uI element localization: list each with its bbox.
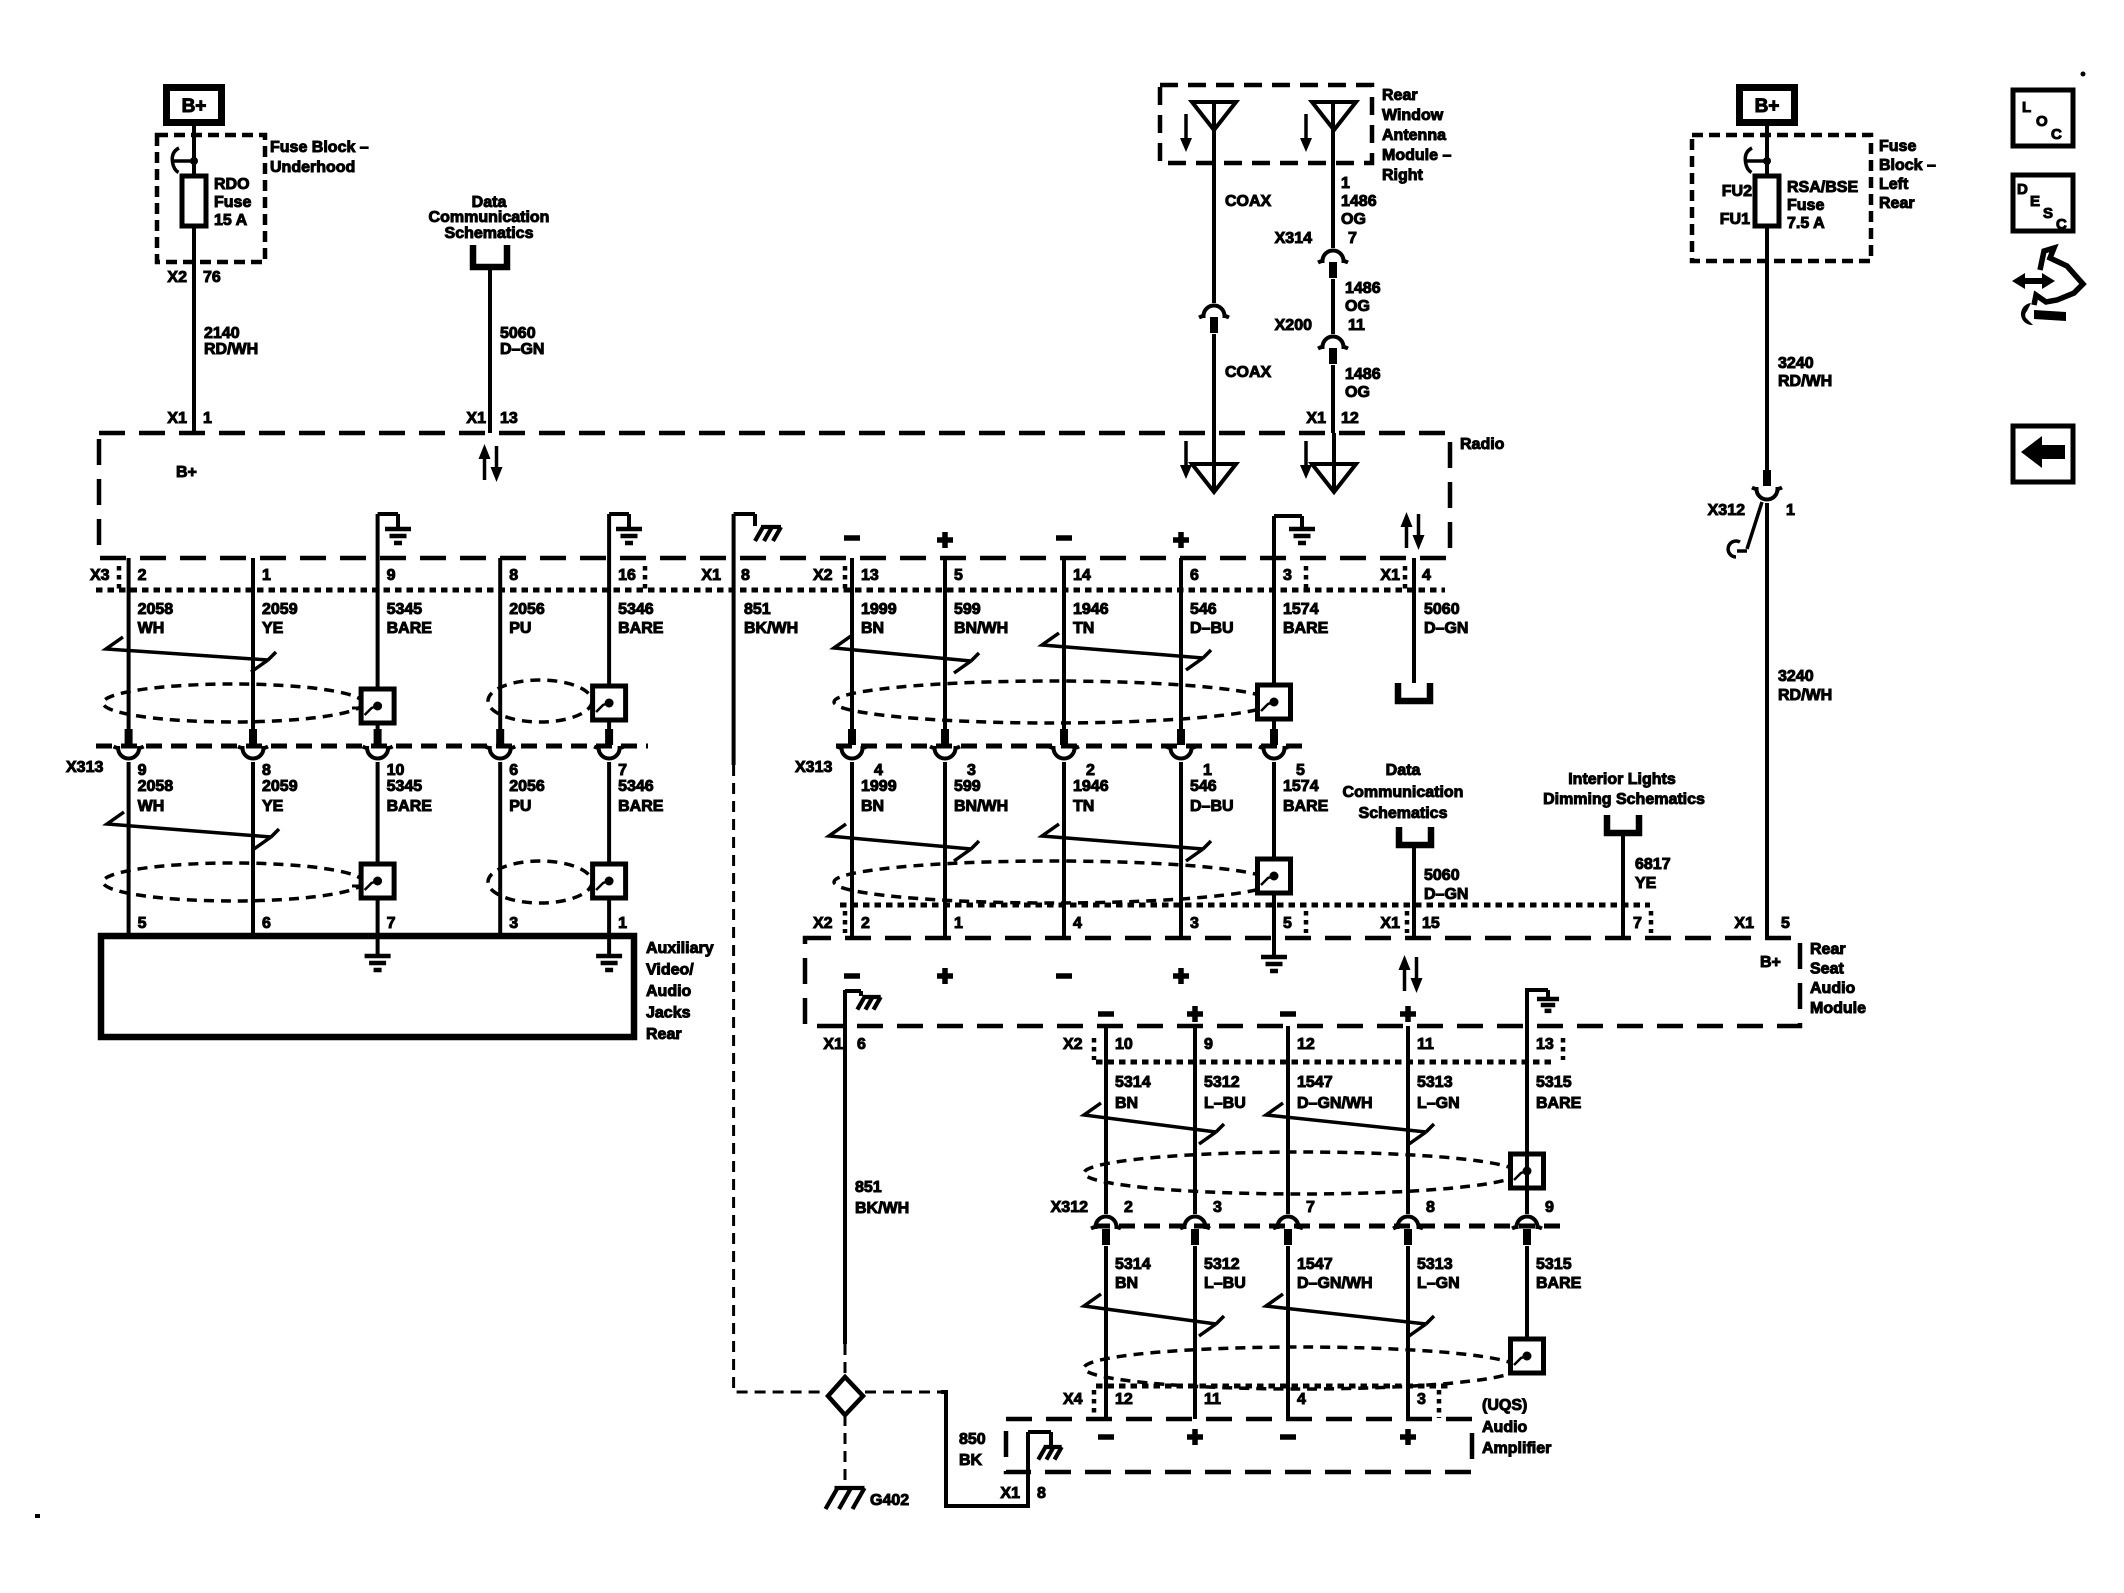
rear seat audio module dashed box bbox=[805, 938, 1800, 1026]
svg-text:Antenna: Antenna bbox=[1382, 127, 1446, 144]
wire 1547 D–GN/WH X312 to amplifier X4-4 bbox=[1286, 1246, 1290, 1419]
svg-text:5: 5 bbox=[1296, 762, 1305, 779]
svg-text:RSA/BSE: RSA/BSE bbox=[1787, 179, 1858, 196]
wire 5314 BN X312 to amplifier X4-12 bbox=[1104, 1246, 1108, 1419]
svg-text:1999: 1999 bbox=[861, 778, 897, 795]
fuse feed terminal curl and junction bbox=[172, 159, 194, 163]
wire 599 BN/WH X313 to rear seat audio module pin 1 bbox=[943, 762, 947, 938]
wire 1574 BARE radio X2-3 to X313 bbox=[1272, 558, 1276, 730]
connector X2 end tick bbox=[843, 566, 848, 590]
rear seat audio module connector face dotted line bbox=[840, 903, 1650, 908]
svg-text:Communication: Communication bbox=[1343, 784, 1464, 801]
shield ellipse bottom (lower) bbox=[1084, 1347, 1518, 1389]
twisted leads arrow mid pair B (upper) bbox=[1042, 633, 1211, 670]
svg-text:TN: TN bbox=[1073, 620, 1094, 637]
svg-text:2: 2 bbox=[1086, 762, 1095, 779]
svg-text:X2: X2 bbox=[167, 269, 187, 286]
svg-text:RD/WH: RD/WH bbox=[204, 341, 258, 358]
wire 2056 PU X313 to auxiliary jacks pin 3 bbox=[498, 762, 502, 936]
svg-text:15: 15 bbox=[1422, 915, 1440, 932]
svg-text:599: 599 bbox=[954, 778, 981, 795]
svg-text:L–BU: L–BU bbox=[1204, 1095, 1246, 1112]
svg-text:X2: X2 bbox=[1063, 1036, 1083, 1053]
svg-text:7: 7 bbox=[1633, 915, 1642, 932]
power symbol B+ battery feed (underhood) bbox=[167, 88, 222, 123]
svg-text:YE: YE bbox=[262, 620, 284, 637]
wire 546 D–BU radio X2-6 to X313 bbox=[1179, 558, 1183, 730]
svg-text:4: 4 bbox=[874, 762, 883, 779]
svg-text:3: 3 bbox=[1417, 1391, 1426, 1408]
off-page bracket to data communication schematics bbox=[473, 245, 507, 267]
wire 1486 OG antenna 2 middle segment bbox=[1331, 279, 1335, 334]
svg-text:1547: 1547 bbox=[1297, 1074, 1333, 1091]
svg-text:1486: 1486 bbox=[1341, 193, 1377, 210]
svg-text:Audio: Audio bbox=[646, 983, 692, 1000]
connector X3 right end tick bbox=[643, 566, 648, 590]
svg-text:12: 12 bbox=[1341, 410, 1359, 427]
twisted leads arrow mid pair B (lower) bbox=[1042, 824, 1211, 861]
shield ellipse left pair (upper) bbox=[103, 684, 363, 722]
svg-text:COAX: COAX bbox=[1225, 364, 1272, 381]
svg-text:10: 10 bbox=[387, 762, 405, 779]
antenna element 1 (left) bbox=[1192, 102, 1236, 130]
svg-text:1: 1 bbox=[954, 915, 963, 932]
svg-text:851: 851 bbox=[744, 601, 771, 618]
svg-text:5: 5 bbox=[1283, 915, 1292, 932]
svg-text:7: 7 bbox=[1306, 1199, 1315, 1216]
svg-text:L–GN: L–GN bbox=[1417, 1275, 1460, 1292]
wire 5315 BARE module X2-13 to X312 bbox=[1525, 1026, 1529, 1214]
icon box LOC bbox=[2013, 90, 2073, 146]
svg-text:5314: 5314 bbox=[1115, 1256, 1151, 1273]
svg-text:1: 1 bbox=[1341, 175, 1350, 192]
svg-text:5315: 5315 bbox=[1536, 1256, 1572, 1273]
svg-text:Fuse Block –: Fuse Block – bbox=[270, 139, 369, 156]
connector X312 pin 2 terminals bbox=[1091, 1217, 1121, 1229]
svg-text:1574: 1574 bbox=[1283, 778, 1319, 795]
svg-text:G402: G402 bbox=[870, 1492, 909, 1509]
svg-text:13: 13 bbox=[500, 410, 518, 427]
svg-text:5: 5 bbox=[1781, 915, 1790, 932]
svg-text:Amplifier: Amplifier bbox=[1482, 1440, 1551, 1457]
svg-text:Jacks: Jacks bbox=[646, 1005, 691, 1022]
auxiliary jacks internal ground pin 7 bbox=[365, 956, 391, 970]
wire 1547 D–GN/WH module X2-12 to X312 bbox=[1286, 1026, 1290, 1214]
fuse RDO 15 A bbox=[182, 176, 206, 226]
connector X312 face (bottom) bbox=[1094, 1224, 1562, 1229]
icon box back arrow bbox=[2013, 426, 2073, 482]
svg-text:D–GN: D–GN bbox=[1424, 886, 1468, 903]
svg-text:8: 8 bbox=[262, 762, 271, 779]
svg-text:2: 2 bbox=[1124, 1199, 1133, 1216]
svg-text:9: 9 bbox=[1545, 1199, 1554, 1216]
radio internal chassis ground at X1-8 bbox=[732, 514, 736, 558]
svg-text:D–GN/WH: D–GN/WH bbox=[1297, 1095, 1373, 1112]
svg-text:5060: 5060 bbox=[1424, 867, 1460, 884]
radio connector face dotted line X3/X1/X2 bbox=[96, 588, 1445, 593]
svg-text:OG: OG bbox=[1341, 211, 1366, 228]
svg-text:1574: 1574 bbox=[1283, 601, 1319, 618]
shield ellipse left pair (lower) bbox=[103, 863, 363, 901]
svg-text:Underhood: Underhood bbox=[270, 159, 355, 176]
svg-text:Radio: Radio bbox=[1460, 436, 1505, 453]
svg-text:WH: WH bbox=[138, 798, 165, 815]
connector X2 right end tick (module) bbox=[1304, 911, 1309, 933]
radio polarity signs above X2 pins bbox=[844, 535, 860, 541]
bidirectional data arrows inside radio at X1-4 bbox=[1405, 526, 1409, 548]
wire 546 D–BU X313 to rear seat audio module pin 3 bbox=[1179, 762, 1183, 938]
svg-text:X313: X313 bbox=[66, 759, 103, 776]
ground G402 chassis symbol bbox=[826, 1488, 865, 1509]
svg-text:13: 13 bbox=[1536, 1036, 1554, 1053]
svg-text:X2: X2 bbox=[813, 567, 833, 584]
inline connector X312 pin 1 bbox=[1763, 470, 1771, 486]
svg-text:BARE: BARE bbox=[618, 620, 664, 637]
fuse block left rear dashed box bbox=[1692, 135, 1871, 261]
amplifier internal chassis ground at X1-8 bbox=[1028, 1432, 1051, 1447]
shield termination square 5345 (lower) bbox=[361, 864, 394, 898]
svg-text:3: 3 bbox=[1190, 915, 1199, 932]
wire 5345 BARE radio X3-9 to X313 bbox=[376, 558, 380, 730]
connector X313 pin 6 terminals bbox=[496, 729, 504, 745]
svg-text:RD/WH: RD/WH bbox=[1778, 373, 1832, 390]
wire 5060 D-GN radio X1-4 stub bbox=[1412, 558, 1416, 683]
svg-text:851: 851 bbox=[855, 1179, 882, 1196]
shield ellipse 2056 (lower) bbox=[488, 861, 592, 903]
connector X312 pin 7 terminals bbox=[1273, 1217, 1303, 1229]
wire 2059 YE radio X3-1 to X313 bbox=[251, 558, 255, 730]
connector X313 pin 5 terminals (mid) bbox=[1270, 729, 1278, 745]
svg-text:1486: 1486 bbox=[1345, 280, 1381, 297]
svg-text:BN: BN bbox=[861, 620, 884, 637]
wire 2058 WH radio X3-2 to X313 bbox=[127, 558, 131, 730]
svg-text:Rear: Rear bbox=[1879, 195, 1915, 212]
module internal chassis ground at X1-6 bbox=[843, 990, 847, 1026]
fuse feed terminal curl and junction (left rear) bbox=[1745, 159, 1767, 163]
wire dashed splice to ground G402 bbox=[844, 1415, 847, 1482]
shield termination square 5346 (lower) bbox=[593, 864, 626, 898]
svg-text:BARE: BARE bbox=[1536, 1095, 1582, 1112]
svg-text:8: 8 bbox=[509, 567, 518, 584]
svg-text:5313: 5313 bbox=[1417, 1074, 1453, 1091]
svg-text:6: 6 bbox=[262, 915, 271, 932]
svg-text:Left: Left bbox=[1879, 176, 1909, 193]
svg-text:6817: 6817 bbox=[1635, 856, 1671, 873]
bidirectional data arrows inside module at X1-15 bbox=[1403, 969, 1407, 991]
radio internal ground at X3-9 bbox=[376, 514, 380, 558]
shield termination square 5346 (upper) bbox=[593, 686, 626, 720]
svg-text:Auxiliary: Auxiliary bbox=[646, 940, 714, 957]
twisted leads arrow mid pair A (upper) bbox=[834, 636, 979, 673]
svg-text:X313: X313 bbox=[795, 759, 832, 776]
svg-text:5345: 5345 bbox=[387, 601, 423, 618]
wire 599 BN/WH radio X2-5 to X313 bbox=[943, 558, 947, 730]
svg-text:B+: B+ bbox=[1760, 954, 1781, 971]
connector X313 pin 8 terminals bbox=[249, 729, 257, 745]
twisted leads arrow left pair (lower) bbox=[107, 812, 279, 849]
svg-text:BN: BN bbox=[861, 798, 884, 815]
wire 3240 RD/WH to rear seat audio module X1-5 bbox=[1765, 503, 1769, 938]
wire 5312 L–BU X312 to amplifier X4-11 bbox=[1193, 1246, 1197, 1419]
svg-text:O: O bbox=[2036, 113, 2048, 130]
connector X4 face dotted line bbox=[1096, 1384, 1448, 1389]
connector X313 pin 9 terminals bbox=[125, 729, 133, 745]
svg-text:L: L bbox=[2022, 99, 2031, 116]
svg-text:5346: 5346 bbox=[618, 601, 654, 618]
svg-text:BN: BN bbox=[1115, 1275, 1138, 1292]
svg-text:850: 850 bbox=[959, 1431, 986, 1448]
svg-text:3: 3 bbox=[509, 915, 518, 932]
svg-text:5315: 5315 bbox=[1536, 1074, 1572, 1091]
svg-text:8: 8 bbox=[1426, 1199, 1435, 1216]
svg-text:RDO: RDO bbox=[214, 176, 250, 193]
svg-text:6: 6 bbox=[509, 762, 518, 779]
wire 5346 BARE radio X3-16 to X313 bbox=[607, 558, 611, 730]
svg-text:Interior Lights: Interior Lights bbox=[1568, 771, 1676, 788]
wire 1999 BN X313 to rear seat audio module pin 2 bbox=[850, 762, 854, 938]
svg-text:11: 11 bbox=[1204, 1391, 1221, 1408]
svg-text:X4: X4 bbox=[1063, 1391, 1083, 1408]
svg-text:BARE: BARE bbox=[387, 620, 433, 637]
svg-text:1547: 1547 bbox=[1297, 1256, 1333, 1273]
svg-text:YE: YE bbox=[262, 798, 284, 815]
svg-text:1: 1 bbox=[203, 410, 212, 427]
rear window antenna module dashed box bbox=[1160, 85, 1372, 163]
wire 5314 BN module X2-10 to X312 bbox=[1104, 1026, 1108, 1214]
svg-text:C: C bbox=[2056, 216, 2067, 233]
shield termination square 5345 (upper) bbox=[361, 689, 394, 723]
svg-text:D–BU: D–BU bbox=[1190, 620, 1234, 637]
svg-text:X200: X200 bbox=[1275, 317, 1312, 334]
svg-text:X312: X312 bbox=[1708, 502, 1745, 519]
svg-text:1: 1 bbox=[618, 915, 627, 932]
connector X312 pin 8 terminals bbox=[1393, 1217, 1423, 1229]
signal arrow radio antenna 1 bbox=[1184, 441, 1188, 467]
wire 851 BK/WH dashed continuation from radio X1-8 bbox=[734, 765, 824, 1392]
svg-text:1: 1 bbox=[1203, 762, 1212, 779]
svg-text:FU2: FU2 bbox=[1722, 183, 1752, 200]
radio antenna input 1 triangle bbox=[1192, 464, 1236, 492]
svg-text:Fuse: Fuse bbox=[1787, 197, 1824, 214]
scan artifact dot bbox=[2081, 72, 2086, 77]
svg-text:X1: X1 bbox=[823, 1036, 843, 1053]
svg-text:6: 6 bbox=[1190, 567, 1199, 584]
svg-text:Video/: Video/ bbox=[646, 962, 694, 979]
svg-text:Data: Data bbox=[1386, 762, 1421, 779]
splice diamond bbox=[828, 1377, 863, 1415]
connector X313 pin 1 terminals (mid) bbox=[1177, 729, 1185, 745]
shield termination square 5315 (lower) bbox=[1511, 1339, 1544, 1373]
svg-text:PU: PU bbox=[509, 798, 531, 815]
svg-text:15 A: 15 A bbox=[214, 212, 248, 229]
svg-text:16: 16 bbox=[618, 567, 636, 584]
svg-text:X2: X2 bbox=[813, 915, 833, 932]
connector X313 pin 3 terminals (mid) bbox=[941, 729, 949, 745]
svg-text:D–BU: D–BU bbox=[1190, 798, 1234, 815]
svg-text:2056: 2056 bbox=[509, 601, 545, 618]
svg-text:D: D bbox=[2017, 181, 2028, 198]
svg-text:Right: Right bbox=[1382, 167, 1424, 184]
wire 2140 RD/WH from B+ through RDO fuse to radio X1-1 bbox=[192, 126, 196, 433]
svg-text:D–GN: D–GN bbox=[1424, 620, 1468, 637]
off-page bracket data communication (X1-15) bbox=[1399, 827, 1431, 845]
svg-text:8: 8 bbox=[1037, 1485, 1046, 1502]
svg-text:Fuse: Fuse bbox=[214, 194, 251, 211]
svg-text:1946: 1946 bbox=[1073, 601, 1109, 618]
connector X312 pin 9 terminals bbox=[1512, 1217, 1542, 1229]
svg-text:X312: X312 bbox=[1051, 1199, 1088, 1216]
svg-text:BN/WH: BN/WH bbox=[954, 798, 1008, 815]
svg-text:TN: TN bbox=[1073, 798, 1094, 815]
svg-text:Communication: Communication bbox=[429, 209, 550, 226]
svg-text:9: 9 bbox=[138, 762, 147, 779]
svg-text:546: 546 bbox=[1190, 601, 1217, 618]
svg-text:3: 3 bbox=[1283, 567, 1292, 584]
svg-text:1999: 1999 bbox=[861, 601, 897, 618]
connector X313 pin 4 terminals (mid) bbox=[848, 729, 856, 745]
svg-text:4: 4 bbox=[1297, 1391, 1306, 1408]
svg-text:YE: YE bbox=[1635, 875, 1657, 892]
connector X313 pin 10 terminals bbox=[374, 729, 382, 745]
svg-text:2: 2 bbox=[138, 567, 147, 584]
svg-text:5: 5 bbox=[138, 915, 147, 932]
svg-text:X1: X1 bbox=[1380, 567, 1400, 584]
svg-text:X1: X1 bbox=[167, 410, 187, 427]
svg-text:X1: X1 bbox=[1000, 1485, 1020, 1502]
svg-text:2140: 2140 bbox=[204, 325, 240, 342]
svg-text:X1: X1 bbox=[466, 410, 486, 427]
wire 1486 OG antenna 2 upper segment bbox=[1331, 102, 1335, 248]
fuse block underhood dashed box bbox=[157, 135, 265, 262]
svg-text:5346: 5346 bbox=[618, 778, 654, 795]
svg-text:B+: B+ bbox=[182, 96, 207, 117]
svg-text:1: 1 bbox=[1786, 502, 1795, 519]
svg-text:BK/WH: BK/WH bbox=[855, 1200, 909, 1217]
svg-text:2058: 2058 bbox=[138, 778, 174, 795]
shield ellipse mid (lower) bbox=[834, 861, 1272, 903]
svg-text:7.5 A: 7.5 A bbox=[1787, 215, 1825, 232]
inline coax connector on antenna 1 lead bbox=[1199, 306, 1229, 318]
svg-text:3: 3 bbox=[1213, 1199, 1222, 1216]
radio internal ground at X3-16 bbox=[607, 514, 611, 558]
twisted leads arrow bottom pair A (lower) bbox=[1084, 1294, 1224, 1336]
svg-text:3240: 3240 bbox=[1778, 668, 1814, 685]
svg-text:B+: B+ bbox=[1755, 96, 1780, 117]
connector X313 pin 2 terminals (mid) bbox=[1060, 729, 1068, 745]
svg-text:2059: 2059 bbox=[262, 601, 298, 618]
module polarity signs below X2 pins bbox=[844, 973, 860, 979]
svg-text:L–BU: L–BU bbox=[1204, 1275, 1246, 1292]
wire 1486 OG antenna 2 lower segment bbox=[1331, 365, 1335, 433]
svg-text:2: 2 bbox=[861, 915, 870, 932]
amplifier polarity signs below X4 pins bbox=[1098, 1434, 1114, 1440]
svg-text:X1: X1 bbox=[1734, 915, 1754, 932]
svg-text:1: 1 bbox=[262, 567, 271, 584]
svg-text:S: S bbox=[2043, 205, 2053, 222]
svg-text:3: 3 bbox=[967, 762, 976, 779]
module internal ground at X2-5 bbox=[1272, 938, 1276, 955]
svg-text:FU1: FU1 bbox=[1720, 211, 1750, 228]
svg-text:RD/WH: RD/WH bbox=[1778, 687, 1832, 704]
svg-text:Fuse: Fuse bbox=[1879, 138, 1916, 155]
svg-text:X1: X1 bbox=[701, 567, 721, 584]
svg-text:E: E bbox=[2030, 193, 2040, 210]
twisted leads arrow bottom pair B (lower) bbox=[1266, 1294, 1434, 1336]
wire 2059 YE X313 to auxiliary jacks pin 6 bbox=[251, 762, 255, 936]
power symbol B+ battery feed (left rear) bbox=[1740, 88, 1795, 123]
svg-text:9: 9 bbox=[1204, 1036, 1213, 1053]
svg-text:8: 8 bbox=[741, 567, 750, 584]
svg-text:Block –: Block – bbox=[1879, 157, 1936, 174]
auxiliary video/audio jacks rear box bbox=[101, 936, 634, 1037]
module internal ground at X2-13 bbox=[1525, 988, 1529, 1026]
svg-text:4: 4 bbox=[1422, 567, 1431, 584]
off-page bracket data communication (X1-4) bbox=[1398, 683, 1430, 701]
wire 5060 D-GN to radio X1-13 bbox=[488, 267, 492, 433]
svg-text:1946: 1946 bbox=[1073, 778, 1109, 795]
svg-text:C: C bbox=[2051, 126, 2062, 143]
wire 5346 BARE X313 to auxiliary jacks pin 1 bbox=[607, 762, 611, 954]
svg-text:5060: 5060 bbox=[500, 325, 536, 342]
shield ellipse mid (upper) bbox=[834, 681, 1272, 723]
svg-text:4: 4 bbox=[1073, 915, 1082, 932]
svg-text:OG: OG bbox=[1345, 298, 1370, 315]
svg-text:6: 6 bbox=[857, 1036, 866, 1053]
svg-text:BK/WH: BK/WH bbox=[744, 620, 798, 637]
wire 2058 WH X313 to auxiliary jacks pin 5 bbox=[127, 762, 131, 936]
svg-text:BN: BN bbox=[1115, 1095, 1138, 1112]
svg-text:L–GN: L–GN bbox=[1417, 1095, 1460, 1112]
svg-text:X1: X1 bbox=[1380, 915, 1400, 932]
svg-text:9: 9 bbox=[387, 567, 396, 584]
connector X313 face (mid) bbox=[836, 744, 1305, 749]
shield ellipse 2056 (upper) bbox=[488, 680, 592, 722]
wire 6817 YE to module pin 7 bbox=[1621, 833, 1625, 938]
radio dashed box bbox=[99, 433, 1450, 558]
shield termination square 5315 (upper) bbox=[1511, 1154, 1544, 1188]
svg-text:Schematics: Schematics bbox=[445, 225, 534, 242]
svg-text:1486: 1486 bbox=[1345, 366, 1381, 383]
twisted leads arrow bottom pair A (upper) bbox=[1084, 1103, 1224, 1144]
off-page bracket interior lights dimming bbox=[1607, 815, 1639, 833]
wire 5315 BARE X312 to shield termination bbox=[1525, 1246, 1529, 1341]
twisted leads arrow mid pair A (lower) bbox=[829, 824, 979, 861]
svg-text:2059: 2059 bbox=[262, 778, 298, 795]
connector X2 right end tick bbox=[1304, 566, 1309, 590]
shield termination square 1574 (lower) bbox=[1258, 859, 1291, 893]
twisted leads arrow bottom pair B (upper) bbox=[1266, 1103, 1434, 1144]
connector X312 pin 3 terminals bbox=[1180, 1217, 1210, 1229]
svg-text:11: 11 bbox=[1348, 317, 1365, 334]
svg-text:BARE: BARE bbox=[387, 798, 433, 815]
svg-text:Seat: Seat bbox=[1810, 961, 1844, 978]
svg-text:7: 7 bbox=[1348, 230, 1357, 247]
svg-text:5312: 5312 bbox=[1204, 1256, 1240, 1273]
module output polarity signs above X2 bottom pins bbox=[1098, 1011, 1114, 1017]
svg-text:Rear: Rear bbox=[646, 1026, 682, 1043]
radio antenna input 2 triangle bbox=[1312, 464, 1356, 492]
svg-text:12: 12 bbox=[1297, 1036, 1315, 1053]
svg-text:X1: X1 bbox=[1306, 410, 1326, 427]
svg-text:Module: Module bbox=[1810, 1000, 1866, 1017]
svg-text:10: 10 bbox=[1115, 1036, 1133, 1053]
module bottom connector face dotted line bbox=[1096, 1060, 1556, 1065]
svg-text:5312: 5312 bbox=[1204, 1074, 1240, 1091]
fuse RSA/BSE 7.5 A bbox=[1755, 176, 1779, 226]
wire 851 BK/WH module X1-6 down bbox=[843, 1026, 847, 1344]
wire 1574 BARE X313 to rear seat audio module pin 5 bbox=[1272, 762, 1276, 938]
svg-text:Schematics: Schematics bbox=[1359, 805, 1448, 822]
